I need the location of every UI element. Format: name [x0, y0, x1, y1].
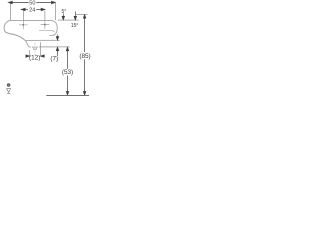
svg-text:24: 24	[29, 8, 35, 14]
svg-text:5°: 5°	[62, 9, 67, 15]
svg-text:(12): (12)	[29, 55, 40, 62]
svg-text:(7): (7)	[50, 56, 58, 63]
svg-text:(85): (85)	[79, 53, 90, 60]
svg-text:50: 50	[29, 1, 35, 7]
svg-text:(53): (53)	[62, 69, 73, 76]
svg-text:15°: 15°	[71, 23, 79, 29]
